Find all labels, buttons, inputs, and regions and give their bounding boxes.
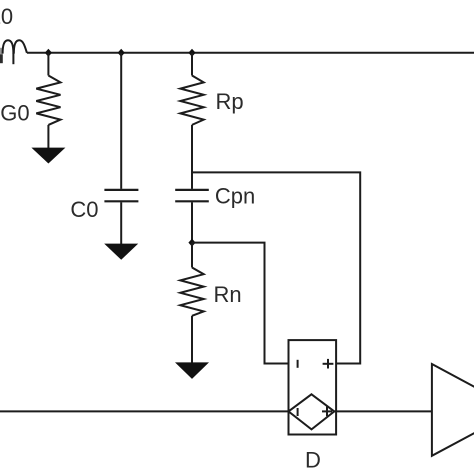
pin plus (top input): [323, 359, 334, 369]
resistor Rn: [180, 268, 203, 316]
wire C0 branch top: [120, 53, 122, 189]
ground (C0): [104, 244, 138, 260]
resistor RG0: [36, 76, 60, 125]
wire RG0 branch top: [47, 53, 49, 76]
wire Rp branch top: [191, 53, 193, 76]
wire RG0 to ground: [47, 125, 49, 148]
wire bottom rail left: [0, 410, 289, 412]
node junction top rail / RG0 branch: [45, 49, 52, 57]
svg-text:Rp: Rp: [216, 89, 244, 114]
op-amp amplifier: [432, 364, 474, 456]
capacitor C0: [104, 190, 138, 201]
wire feedback from Cpn top node to D plus terminal: [192, 172, 360, 363]
dependent source D box: [289, 340, 337, 434]
wire bottom rail right: [334, 410, 432, 412]
node junction top rail / C0 branch: [118, 49, 125, 57]
wire Rn to ground: [191, 316, 193, 363]
wire Rn branch top: [191, 243, 193, 268]
dependent source diamond: [289, 394, 335, 429]
wire top rail: [27, 52, 474, 54]
resistor Rp: [180, 76, 203, 125]
svg-text:D: D: [305, 447, 321, 472]
ground (Rn): [175, 362, 209, 379]
svg-text:Rn: Rn: [214, 282, 242, 307]
wire Rp to Cpn: [191, 125, 193, 189]
wire Cpn to Rn node: [191, 202, 193, 242]
pin minus (top input, rotated): [297, 360, 299, 368]
svg-text:RG0: RG0: [0, 100, 30, 125]
node junction Cpn / Rn: [188, 239, 195, 247]
wire feedback from Cpn bottom node to D minus terminal: [192, 243, 289, 364]
ground (RG0): [31, 148, 65, 164]
svg-text:L0: L0: [0, 4, 13, 29]
capacitor Cpn: [175, 190, 209, 201]
diamond plus: [322, 407, 332, 417]
node junction top rail / Rp branch: [188, 49, 195, 57]
wire C0 to ground: [120, 202, 122, 244]
svg-text:C0: C0: [70, 197, 98, 222]
diamond minus (rotated): [297, 408, 299, 416]
inductor L0: [0, 40, 27, 64]
svg-text:Cpn: Cpn: [215, 183, 255, 208]
